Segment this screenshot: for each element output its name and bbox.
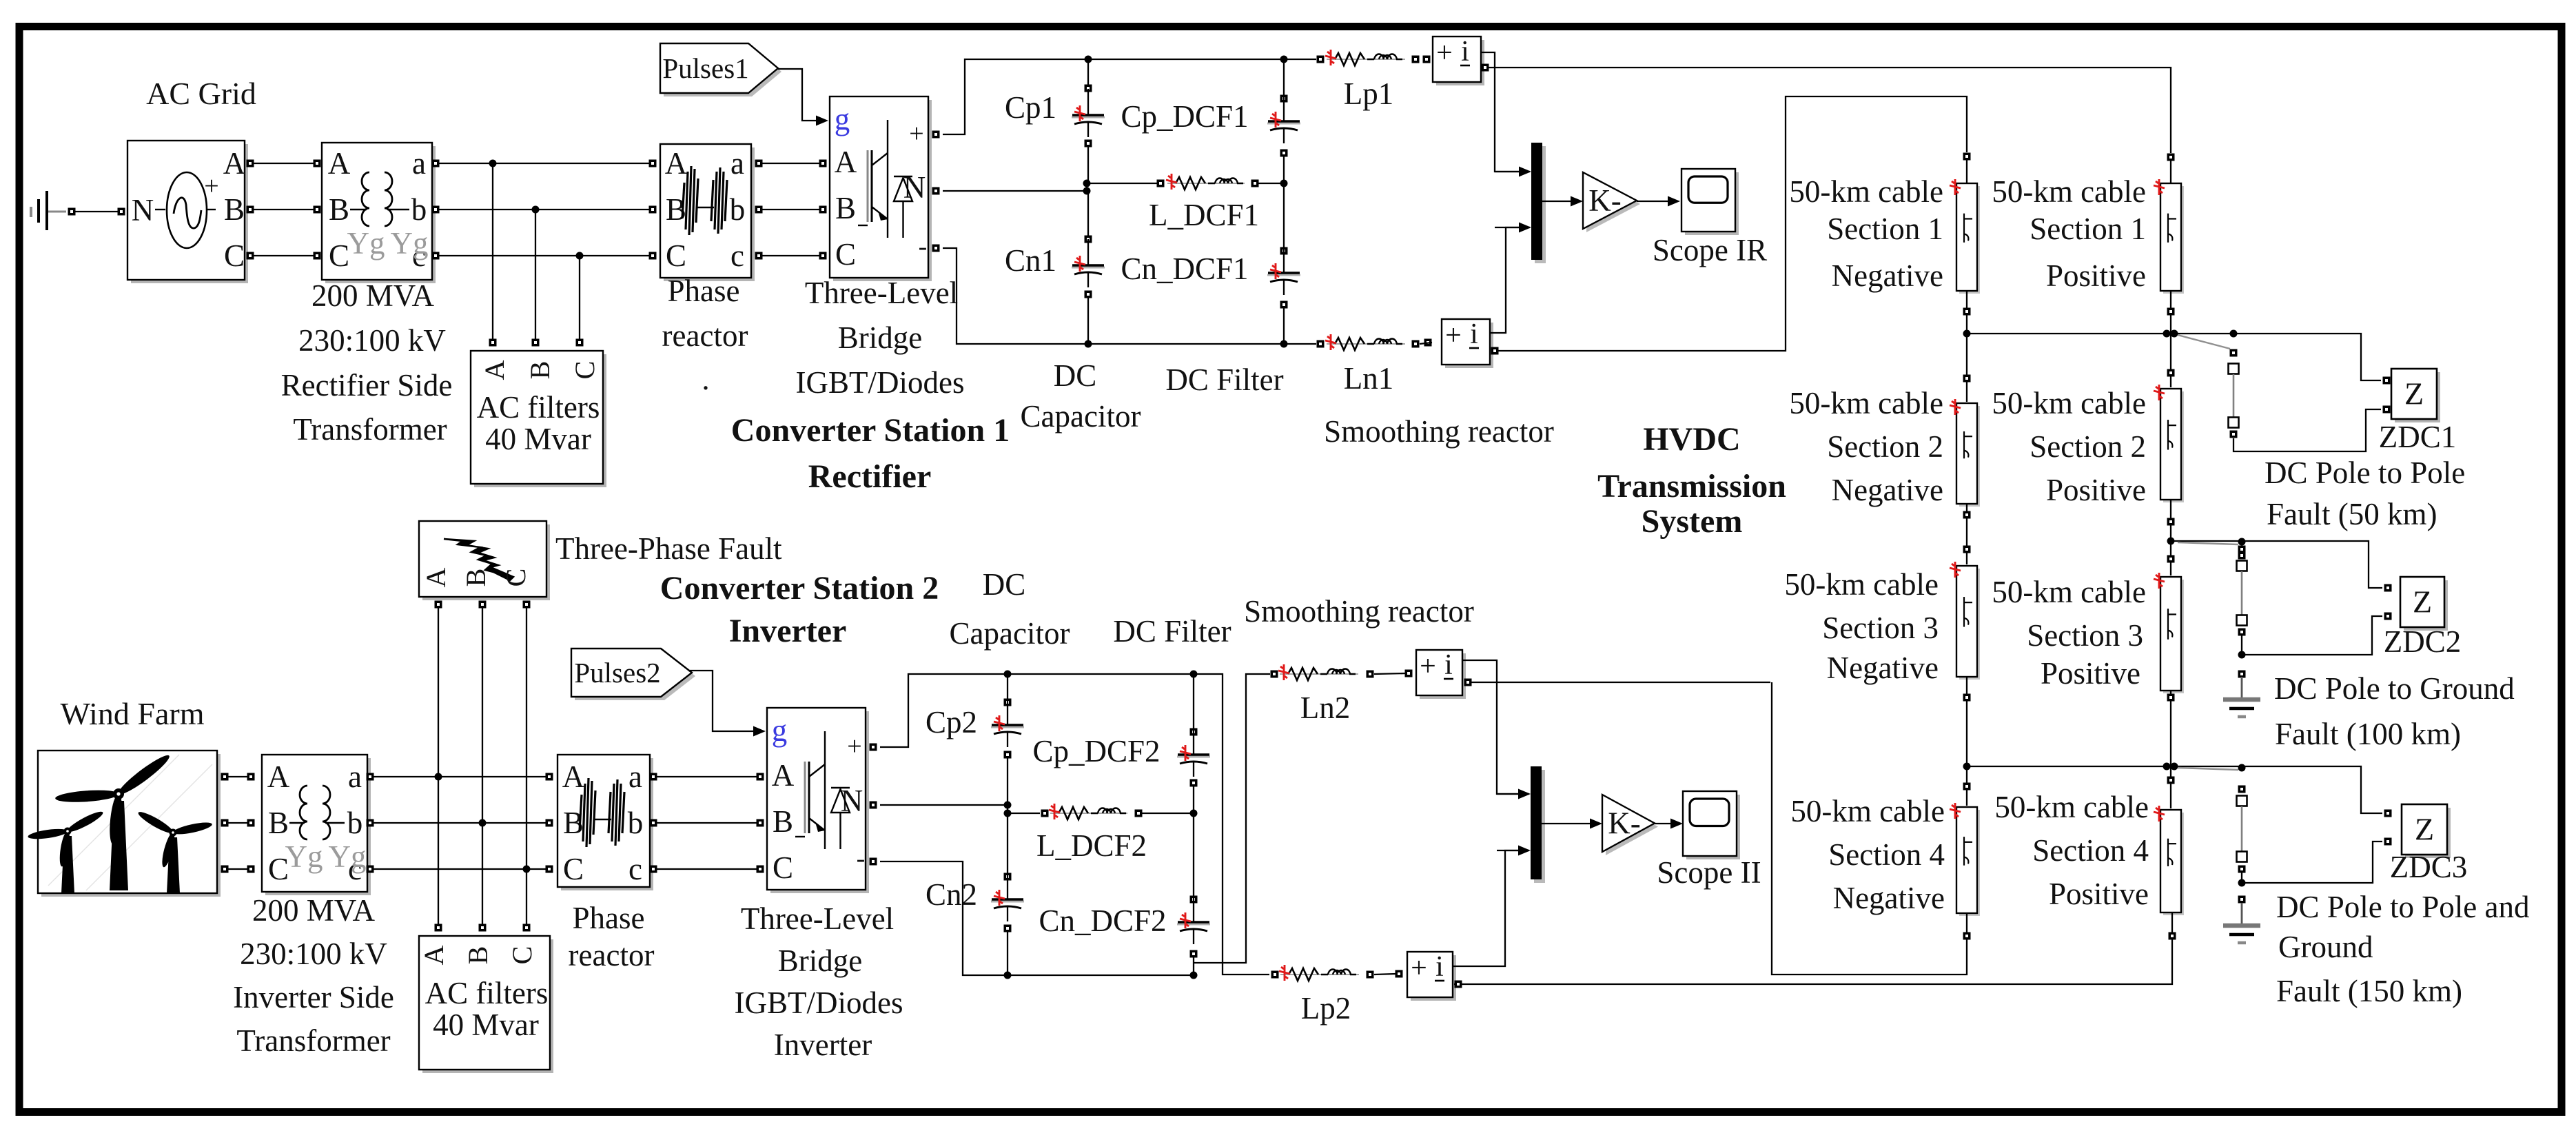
- ground G1 (AC source neutral ground): [31, 191, 66, 230]
- breaker B3 (pole-pole-ground fault switch): [2237, 786, 2247, 873]
- breaker B1 (pole-to-pole fault switch): [2229, 349, 2239, 438]
- svg-text:Z: Z: [2413, 584, 2432, 620]
- svg-text:50-km cable: 50-km cable: [1790, 794, 1945, 828]
- svg-text:Cn1: Cn1: [1005, 243, 1056, 278]
- svg-text:Section 4: Section 4: [1828, 837, 1945, 872]
- AC filters F2 block (40 Mvar): [418, 936, 553, 1073]
- svg-text:Inverter: Inverter: [774, 1028, 872, 1062]
- inductor Lp1 smoothing reactor: [1317, 50, 1420, 65]
- svg-text:Capacitor: Capacitor: [950, 616, 1070, 651]
- node top rail at Cp_DCF1: [1280, 56, 1288, 63]
- node bottom rail at Cn1: [1085, 340, 1092, 348]
- svg-text:Section 2: Section 2: [2030, 429, 2146, 464]
- svg-text:Three-Level: Three-Level: [741, 901, 894, 936]
- svg-text:AC filters: AC filters: [477, 390, 600, 425]
- svg-text:Pulses1: Pulses1: [662, 52, 748, 84]
- svg-text:Cn_DCF2: Cn_DCF2: [1039, 904, 1166, 938]
- wire U2 - output to bottom rail 2: [870, 858, 1193, 976]
- wire tap A down to AC filters F1: [489, 163, 497, 347]
- svg-text:Ln2: Ln2: [1300, 691, 1351, 725]
- mux M2: [1531, 766, 1545, 883]
- label Cn2: [926, 877, 977, 912]
- node rail2 at Cp2: [1004, 671, 1012, 678]
- phase reactor PR2 block: [558, 755, 653, 890]
- svg-text:a: a: [628, 759, 642, 794]
- wire PR2 b to bridge U2 B: [650, 819, 764, 827]
- cable section 3 negative: [1950, 562, 1980, 680]
- wire In1 signal to mux M1 input 2: [1489, 227, 1519, 333]
- wire breaker B1 to ZDC1 input 2: [2233, 409, 2381, 451]
- AC source block (AC Grid): [127, 141, 248, 283]
- wire PR1 c to bridge U1 C: [755, 252, 827, 260]
- wire Section 3 Negative to row3: [1963, 677, 1971, 766]
- svg-text:50-km cable: 50-km cable: [1789, 386, 1943, 420]
- node bus2 A tap: [435, 773, 442, 781]
- svg-text:K-: K-: [1588, 183, 1621, 218]
- svg-text:-: -: [857, 844, 866, 873]
- svg-text:Positive: Positive: [2046, 473, 2146, 507]
- wire mux M2 to gain K2: [1542, 819, 1602, 829]
- wire U2 + output to bottom-top rail: [870, 674, 1222, 751]
- wire fault C down to AC filters F2 C: [523, 601, 531, 932]
- label L_DCF2: [1036, 828, 1147, 863]
- svg-text:IGBT/Diodes: IGBT/Diodes: [796, 365, 965, 400]
- node DC midpoint junction: [1083, 180, 1158, 195]
- node bottom rail2 at Cn_DCF2: [1190, 972, 1198, 979]
- svg-text:Ln1: Ln1: [1344, 361, 1394, 396]
- wire AC Grid A to transformer A: [247, 160, 321, 167]
- node bus2 B tap: [479, 819, 487, 827]
- node bottom rail at Cn_DCF1: [1280, 340, 1288, 348]
- svg-text:Scope II: Scope II: [1657, 855, 1761, 890]
- label Phase reactor (bottom): [569, 901, 655, 972]
- wire wind farm C to transformer T2 C: [221, 866, 255, 873]
- fault impedance ZDC2: [2384, 577, 2449, 631]
- cable section 4 negative: [1950, 803, 1980, 916]
- label 50-km cable Section 3 Negative: [1784, 567, 1939, 685]
- svg-text:i: i: [1435, 951, 1444, 983]
- Pulses2 goto tag: [571, 649, 695, 700]
- svg-text:C: C: [500, 569, 531, 587]
- wire fault row 1 (50 km): [1967, 334, 2381, 380]
- wire tap C down to AC filters F1: [576, 256, 584, 347]
- wire breaker B2 to ZDC2 input 2: [2242, 616, 2382, 655]
- label Three-Level Bridge IGBT/Diodes Inverter (bottom): [735, 901, 903, 1062]
- svg-text:L_DCF2: L_DCF2: [1036, 828, 1147, 863]
- svg-text:+: +: [1445, 320, 1462, 351]
- svg-text:K-: K-: [1608, 806, 1640, 841]
- wire bus2 C transformer c to PR2 C: [367, 866, 553, 873]
- wire into mux M2 input 1 arrow: [1497, 789, 1531, 799]
- wire bus B transformer b to phase reactor B: [432, 206, 657, 214]
- label ZDC1: [2379, 420, 2457, 454]
- svg-text:Yg: Yg: [285, 839, 323, 874]
- port Section 1 Positive bottom: [2167, 291, 2175, 334]
- wire wind farm A to transformer T2 A: [221, 773, 255, 781]
- svg-text:DC Pole to Ground: DC Pole to Ground: [2274, 671, 2515, 706]
- svg-text:HVDC: HVDC: [1643, 421, 1740, 458]
- svg-text:Fault (50 km): Fault (50 km): [2267, 497, 2437, 531]
- label ZDC3: [2390, 850, 2468, 884]
- svg-text:+: +: [1411, 952, 1427, 984]
- svg-text:Transmission: Transmission: [1597, 468, 1786, 504]
- svg-text:B: B: [462, 946, 493, 965]
- port Section 1 Positive top: [2167, 154, 2175, 161]
- svg-text:40 Mvar: 40 Mvar: [485, 422, 591, 456]
- wire Pulses1 to U1 g: [778, 69, 828, 126]
- svg-text:Cp_DCF2: Cp_DCF2: [1032, 734, 1160, 768]
- wire row3 to Section 4 Positive: [2167, 766, 2175, 808]
- svg-text:Rectifier Side: Rectifier Side: [281, 368, 453, 402]
- gain K1 (K-): [1583, 172, 1640, 232]
- svg-text:reactor: reactor: [662, 318, 748, 353]
- port Section 1 Negative top: [1963, 153, 1971, 161]
- svg-text:A: A: [223, 146, 246, 181]
- three-level bridge U2 (inverter): [767, 708, 869, 893]
- svg-text:b: b: [730, 192, 746, 227]
- svg-text:Negative: Negative: [1832, 473, 1943, 507]
- wire bus2 B transformer b to PR2 B: [367, 819, 553, 827]
- svg-text:A: A: [418, 945, 449, 965]
- wire Section 2 Negative to Section 3 Negative: [1963, 504, 1971, 564]
- svg-text:+: +: [1436, 37, 1453, 69]
- svg-text:A: A: [772, 758, 795, 793]
- svg-text:A: A: [835, 145, 857, 179]
- wire gain K2 to Scope II: [1655, 819, 1683, 829]
- wire PR2 a to bridge U2 A: [650, 773, 764, 781]
- svg-text:b: b: [628, 806, 644, 840]
- svg-text:+: +: [847, 732, 861, 761]
- svg-text:Yg: Yg: [347, 226, 385, 261]
- wire row1 to Section 2 Negative: [1963, 334, 1971, 402]
- cable section 4 positive: [2154, 806, 2184, 915]
- wire PR1 a to bridge U1 A: [755, 160, 827, 167]
- label 50-km cable Section 2 Positive: [1992, 386, 2146, 507]
- svg-text:DC Filter: DC Filter: [1113, 614, 1231, 649]
- svg-text:a: a: [348, 759, 362, 794]
- wire U1 - output to bottom DC rail: [932, 245, 1317, 345]
- svg-text:System: System: [1642, 503, 1743, 540]
- svg-text:A: A: [267, 759, 290, 794]
- wire Pulses2 to U2 g: [688, 671, 766, 737]
- svg-text:Negative: Negative: [1832, 258, 1943, 293]
- wire gray link row1 to breaker B1: [2178, 335, 2230, 349]
- svg-text:g: g: [835, 102, 850, 136]
- node row3 junctions: [1963, 763, 2246, 772]
- label AC Grid: [146, 76, 256, 111]
- svg-text:Positive: Positive: [2046, 258, 2146, 293]
- current measurement Ip1: [1423, 36, 1485, 85]
- node breaker B3 ground junction: [2238, 879, 2246, 887]
- label Converter Station 1 Rectifier: [731, 412, 1010, 495]
- svg-text:Inverter: Inverter: [729, 613, 847, 649]
- wire Ip1 electrical out rail to Section 1 Positive: [1482, 64, 2171, 154]
- inductor L_DCF1 series RL: [1157, 174, 1283, 190]
- label DC Pole to Pole and Ground Fault (150 km): [2276, 890, 2530, 1008]
- label L_DCF1: [1149, 198, 1259, 232]
- node top rail at Cp1: [1085, 56, 1092, 63]
- cable section 2 negative: [1950, 399, 1980, 507]
- label T2 200 MVA 230:100 kV Inverter Side Transformer: [233, 893, 394, 1058]
- node bus A tap: [489, 160, 497, 167]
- inductor Lp2 smoothing reactor: [1271, 965, 1374, 981]
- svg-text:B: B: [835, 191, 856, 225]
- svg-text:Capacitor: Capacitor: [1021, 399, 1141, 433]
- node bottom rail2 at Cn2: [1004, 972, 1012, 979]
- label Cp1: [1005, 90, 1056, 125]
- svg-text:Inverter Side: Inverter Side: [233, 980, 394, 1014]
- inductor L_DCF2 series RL: [1041, 804, 1193, 819]
- wire gray link row3 to breaker B3: [2178, 768, 2238, 770]
- svg-text:b: b: [411, 192, 427, 227]
- inductor Ln2 smoothing reactor: [1271, 664, 1374, 680]
- svg-text:Bridge: Bridge: [838, 320, 922, 355]
- svg-text:Negative: Negative: [1827, 651, 1939, 685]
- svg-text:i: i: [1470, 318, 1478, 350]
- svg-text:+: +: [1420, 651, 1436, 682]
- cable section 1 positive: [2154, 161, 2184, 294]
- svg-text:L_DCF1: L_DCF1: [1149, 198, 1259, 232]
- wire into mux M2 input 2 arrow: [1497, 846, 1531, 856]
- label Cp_DCF2: [1032, 734, 1160, 768]
- svg-text:50-km cable: 50-km cable: [1992, 174, 2146, 209]
- svg-text:Transformer: Transformer: [236, 1023, 390, 1058]
- gain K2 (K-): [1602, 795, 1658, 855]
- node row2 junction: [2167, 538, 2175, 545]
- label T1 200 MVA 230:100 kV Rectifier Side Transformer: [281, 278, 453, 447]
- wire bus C transformer c to phase reactor C: [432, 252, 657, 260]
- svg-text:C: C: [835, 237, 856, 272]
- wind farm block: [28, 751, 221, 897]
- svg-text:Lp2: Lp2: [1301, 991, 1351, 1026]
- wire Section 4 Positive return to Ip2: [1464, 912, 2176, 984]
- capacitor Cn_DCF2: [1177, 813, 1210, 975]
- svg-text:DC Pole to Pole and: DC Pole to Pole and: [2276, 890, 2530, 924]
- svg-text:50-km cable: 50-km cable: [1992, 386, 2146, 420]
- svg-text:DC: DC: [983, 567, 1026, 602]
- wire negative crossover up to Ln2: [1194, 674, 1270, 963]
- svg-text:ZDC1: ZDC1: [2379, 420, 2457, 454]
- svg-text:A: A: [420, 567, 451, 587]
- breaker B2 (pole-to-ground fault switch): [2237, 546, 2247, 636]
- label 50-km cable Section 2 Negative: [1789, 386, 1943, 507]
- capacitor Cn1: [1072, 191, 1105, 344]
- wire fault row 3 (150 km): [1967, 766, 2382, 813]
- svg-text:Wind Farm: Wind Farm: [61, 696, 205, 731]
- current measurement In2: [1374, 649, 1466, 699]
- label DC Filter (bottom): [1113, 614, 1231, 649]
- svg-text:Cp_DCF1: Cp_DCF1: [1121, 99, 1248, 134]
- svg-text:c: c: [730, 238, 744, 273]
- capacitor Cp2: [991, 674, 1024, 805]
- svg-text:+: +: [204, 172, 218, 201]
- cable section 2 positive: [2154, 385, 2184, 502]
- node bus C tap: [576, 252, 584, 260]
- node row2 at breaker B2: [2238, 538, 2246, 546]
- svg-text:Yg: Yg: [391, 226, 429, 261]
- svg-text:50-km cable: 50-km cable: [1994, 790, 2149, 824]
- three-phase fault block F2: [419, 521, 550, 600]
- wire AC Grid B to transformer B: [247, 206, 321, 214]
- svg-text:Three-Phase Fault: Three-Phase Fault: [555, 531, 782, 566]
- cable section 1 negative: [1950, 160, 1980, 294]
- label DC Pole to Ground Fault (100 km): [2274, 671, 2515, 751]
- svg-text:B: B: [773, 804, 793, 839]
- svg-text:Lp1: Lp1: [1344, 76, 1394, 111]
- label Cn_DCF1: [1121, 252, 1248, 286]
- svg-text:200 MVA: 200 MVA: [311, 278, 434, 313]
- wire U1 N output to DC midpoint: [932, 187, 1087, 195]
- wire into mux M1 input 2 arrow: [1495, 223, 1531, 233]
- wire positive crossover down to Lp2: [1221, 674, 1269, 975]
- svg-text:C: C: [666, 238, 686, 273]
- svg-text:reactor: reactor: [569, 938, 655, 972]
- wire Ip1 signal to mux M1 input 1: [1481, 52, 1519, 172]
- capacitor Cp_DCF2: [1177, 674, 1210, 813]
- svg-text:C: C: [569, 361, 600, 380]
- wire Section 3 Positive to row3: [2167, 691, 2175, 766]
- node bus2 C tap: [523, 866, 531, 873]
- AC filters F1 block (40 Mvar): [471, 351, 606, 487]
- svg-text:C: C: [507, 946, 538, 965]
- node breaker B2 ground junction: [2238, 651, 2246, 659]
- svg-text:Scope IR: Scope IR: [1653, 233, 1767, 267]
- svg-text:ZDC3: ZDC3: [2390, 850, 2468, 884]
- wire PR1 b to bridge U1 B: [755, 206, 827, 214]
- wire U2 N output to DC midpoint 2: [870, 802, 1008, 809]
- label Converter Station 2 Inverter: [660, 570, 939, 649]
- svg-text:B: B: [524, 361, 555, 380]
- svg-text:50-km cable: 50-km cable: [1992, 575, 2146, 609]
- svg-text:Negative: Negative: [1833, 881, 1945, 915]
- capacitor Cn2: [991, 813, 1024, 975]
- capacitor Cn_DCF1: [1267, 183, 1300, 344]
- transformer T2 (Inverter Side Transformer): [262, 755, 371, 895]
- label Ln1: [1344, 361, 1394, 396]
- svg-text:Cp2: Cp2: [926, 705, 977, 739]
- label Phase reactor: [662, 274, 748, 396]
- node row1 junctions: [1963, 330, 2238, 338]
- wire bus A transformer a to phase reactor A: [432, 160, 657, 167]
- ground GF2 under breaker B2: [2223, 671, 2260, 717]
- label ZDC2: [2384, 624, 2462, 659]
- svg-text:Cp1: Cp1: [1005, 90, 1056, 125]
- label Three-Phase Fault: [555, 531, 782, 566]
- svg-text:B: B: [460, 569, 491, 587]
- wire row3 to Section 4 Negative: [1963, 766, 1971, 806]
- label 50-km cable Section 1 Negative: [1789, 174, 1943, 293]
- svg-text:c: c: [628, 852, 642, 886]
- svg-text:Converter Station 2: Converter Station 2: [660, 570, 939, 606]
- wire Section 2 Positive bottom to row2: [2167, 500, 2175, 541]
- svg-text:C: C: [329, 238, 349, 273]
- svg-text:B: B: [329, 192, 349, 227]
- svg-text:b: b: [347, 806, 363, 840]
- svg-text:a: a: [412, 146, 426, 181]
- wire fault row 2 (100 km): [2171, 541, 2382, 588]
- wire PR2 c to bridge U2 C: [650, 866, 764, 873]
- svg-text:-: -: [919, 232, 928, 261]
- svg-text:g: g: [772, 713, 788, 748]
- wire In1 electrical out to Section 1 Negative: [1491, 96, 1967, 355]
- Pulses1 goto tag: [660, 43, 781, 96]
- svg-text:IGBT/Diodes: IGBT/Diodes: [735, 986, 903, 1020]
- three-level bridge U1 (rectifier): [830, 96, 932, 281]
- label Lp1: [1344, 76, 1394, 111]
- svg-text:Fault (150 km): Fault (150 km): [2276, 974, 2462, 1008]
- svg-text:Rectifier: Rectifier: [808, 458, 932, 495]
- node DCF1 mid junction: [1280, 180, 1288, 187]
- svg-text:Smoothing reactor: Smoothing reactor: [1244, 594, 1474, 629]
- svg-text:C: C: [563, 852, 584, 886]
- svg-text:B: B: [268, 806, 289, 840]
- capacitor Cp1: [1072, 59, 1105, 183]
- svg-text:C: C: [224, 238, 245, 273]
- scope Scope IR: [1681, 169, 1739, 235]
- svg-text:Positive: Positive: [2041, 656, 2140, 691]
- svg-text:A: A: [479, 360, 510, 380]
- wire gain K1 to Scope IR: [1637, 196, 1680, 207]
- transformer T1 (Rectifier Side Transformer): [322, 143, 436, 283]
- wire into mux M1 input 1 arrow: [1495, 167, 1531, 177]
- svg-text:DC: DC: [1054, 358, 1097, 393]
- svg-text:Section 1: Section 1: [2030, 212, 2146, 246]
- wire Ip2 signal to mux M2 input 2: [1453, 850, 1519, 966]
- scope Scope II: [1683, 791, 1740, 859]
- mux M1: [1531, 143, 1546, 263]
- svg-text:DC Filter: DC Filter: [1165, 363, 1283, 397]
- svg-text:230:100 kV: 230:100 kV: [240, 937, 387, 971]
- wire AC Grid C to transformer C: [247, 252, 321, 260]
- svg-text:Section 3: Section 3: [1822, 611, 1939, 645]
- label 50-km cable Section 3 Positive: [1992, 575, 2146, 691]
- wire row2 to Section 3 Positive: [2167, 541, 2175, 575]
- svg-text:Phase: Phase: [668, 274, 740, 308]
- label DC Filter: [1165, 363, 1283, 397]
- svg-text:AC filters: AC filters: [425, 976, 549, 1010]
- label Three-Level Bridge IGBT/Diodes (rectifier): [796, 276, 965, 400]
- label Cp2: [926, 705, 977, 739]
- wire Section 4 Negative return to In2: [1772, 682, 1971, 975]
- phase reactor PR1 block: [660, 144, 755, 281]
- port Section 1 Negative bottom: [1963, 291, 1971, 334]
- wire U1 + output to top DC rail: [932, 59, 1317, 139]
- svg-text:230:100 kV: 230:100 kV: [298, 323, 446, 358]
- wire In2 electrical out to Section 4 Negative return: [1464, 679, 1771, 686]
- fault impedance ZDC1: [2383, 369, 2441, 422]
- svg-text:A: A: [562, 759, 585, 794]
- node bus B tap: [532, 206, 540, 214]
- svg-text:+: +: [909, 119, 923, 148]
- svg-text:Three-Level: Three-Level: [805, 276, 958, 310]
- svg-text:B: B: [224, 192, 245, 227]
- wire fault A down to AC filters F2 A: [435, 601, 442, 932]
- ground GF3 under breaker B3: [2223, 896, 2260, 943]
- wire tap B down to AC filters F1: [532, 210, 540, 347]
- label Wind Farm: [61, 696, 205, 731]
- label Scope IR: [1653, 233, 1767, 267]
- svg-text:C: C: [773, 850, 793, 885]
- svg-text:Converter Station 1: Converter Station 1: [731, 412, 1010, 449]
- svg-text:Positive: Positive: [2049, 877, 2149, 911]
- svg-text:Section 2: Section 2: [1827, 429, 1943, 464]
- label Scope II: [1657, 855, 1761, 890]
- svg-text:Cn2: Cn2: [926, 877, 977, 912]
- label Smoothing reactor (bottom): [1244, 594, 1474, 629]
- svg-text:i: i: [1444, 649, 1453, 681]
- label DC Pole to Pole Fault (50 km): [2265, 456, 2465, 531]
- svg-text:Phase: Phase: [573, 901, 645, 935]
